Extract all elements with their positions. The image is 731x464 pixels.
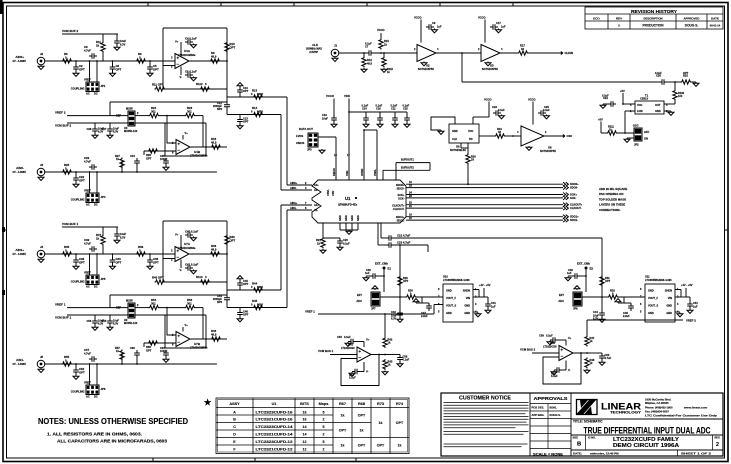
ground [320, 249, 326, 253]
svg-text:DC: DC [94, 92, 98, 96]
capacitor C57 4.7uF [89, 356, 97, 362]
svg-text:CLK: CLK [452, 137, 457, 141]
ground [668, 111, 674, 115]
capacitor C22 OPT [73, 175, 79, 183]
wire [226, 97, 228, 105]
svg-text:DOUG S.: DOUG S. [685, 24, 699, 28]
svg-text:LVDS: LVDS [296, 134, 303, 138]
svg-text:1. ALL RESISTORS ARE IN OHMS,: 1. ALL RESISTORS ARE IN OHMS, 0603. [47, 432, 142, 438]
svg-text:E2: E2 [590, 267, 594, 271]
wire [478, 290, 480, 298]
svg-text:GND: GND [655, 109, 661, 113]
capacitor C36 OPT [73, 257, 79, 265]
ground [114, 46, 120, 50]
wire AIN0+ input [45, 60, 175, 62]
svg-text:16: 16 [303, 418, 307, 422]
wire +5V [622, 93, 624, 104]
wire [385, 354, 400, 356]
svg-text:R13: R13 [252, 89, 258, 93]
svg-text:R73: R73 [377, 402, 384, 406]
U1 top pin VDDLBYP [376, 162, 378, 180]
svg-text:0.1uF: 0.1uF [551, 374, 558, 378]
svg-text:CB3LV: CB3LV [640, 97, 648, 101]
wire [580, 275, 586, 277]
svg-text:0.1uF: 0.1uF [365, 42, 372, 46]
wire box right [205, 123, 207, 156]
svg-text:TECHNOLOGY: TECHNOLOGY [610, 411, 642, 415]
svg-text:+5V: +5V [620, 89, 625, 93]
resistor R12 49.9 [362, 57, 366, 68]
capacitor C45 OPT [237, 280, 243, 288]
wire [667, 81, 681, 83]
svg-text:COUPLING: COUPLING [71, 87, 85, 91]
wire U4A output [189, 60, 227, 62]
svg-text:OPT: OPT [358, 443, 366, 447]
svg-text:PRODUCTION: PRODUCTION [643, 24, 665, 28]
wire [363, 53, 365, 57]
op-amp U12 LT1819 [357, 347, 371, 362]
wire to ADC - [227, 307, 287, 309]
wire SDO0+ line [406, 183, 563, 185]
svg-text:2: 2 [323, 433, 325, 437]
pin 3 AIN0- [281, 189, 312, 191]
jumper U3 reference select [128, 111, 135, 126]
svg-text:SDO1+: SDO1+ [396, 215, 405, 219]
svg-text:2.2uF: 2.2uF [623, 314, 630, 318]
svg-text:GND: GND [446, 311, 452, 315]
svg-text:V+: V+ [175, 233, 179, 237]
resistor R35 0 [62, 252, 73, 256]
capacitor C44 10uF [599, 310, 605, 318]
wire [624, 111, 626, 133]
wire mux to amp [135, 314, 165, 316]
svg-text:1uF: 1uF [437, 25, 442, 29]
wire [96, 254, 98, 275]
svg-text:V+: V+ [175, 40, 179, 44]
svg-text:LTC6655BHMS8-4.096: LTC6655BHMS8-4.096 [443, 278, 470, 282]
svg-text:SDO0+: SDO0+ [570, 182, 579, 186]
wire [380, 296, 400, 298]
svg-text:5: 5 [323, 425, 325, 429]
svg-text:301: 301 [151, 110, 156, 114]
ground [438, 130, 444, 134]
svg-text:AIN0-: AIN0- [290, 186, 297, 190]
terminal CS0 [560, 135, 565, 138]
svg-text:JP2: JP2 [634, 143, 639, 147]
terminal CLKOUT+ [563, 203, 568, 207]
svg-text:SHDN: SHDN [463, 289, 470, 293]
svg-text:1k: 1k [341, 413, 345, 417]
terminal SDO0- [563, 186, 568, 190]
wire [135, 307, 149, 309]
jumper JP4 coupling [86, 193, 99, 203]
svg-text:SCK-: SCK- [398, 197, 404, 201]
resistor R21 1k [321, 238, 325, 249]
svg-text:CLKOUT+: CLKOUT+ [392, 204, 405, 208]
svg-text:OPT: OPT [396, 421, 404, 425]
svg-text:Msps: Msps [319, 402, 329, 406]
svg-text:OPT: OPT [116, 68, 122, 72]
svg-text:R21: R21 [316, 238, 321, 242]
wire to CNV [467, 164, 469, 185]
ground [565, 277, 571, 281]
ground [432, 29, 438, 33]
svg-text:JP6: JP6 [101, 387, 106, 391]
jumper JP3 LVDS/CMOS select [308, 133, 318, 147]
svg-text:GND: GND [648, 289, 654, 293]
svg-text:AC: AC [86, 203, 90, 207]
svg-text:C51: C51 [693, 301, 698, 305]
resistor R40 OPT [155, 280, 166, 284]
svg-text:VREF 1: VREF 1 [55, 303, 66, 307]
svg-text:49.9: 49.9 [211, 333, 217, 337]
svg-text:R40 OPT: R40 OPT [152, 276, 164, 280]
wire [239, 308, 241, 311]
ground [404, 123, 410, 127]
svg-text:1uF: 1uF [501, 25, 506, 29]
wire SHDN [473, 289, 479, 291]
op-amp U7B LT1819 [176, 332, 190, 347]
capacitor C42 10uF [397, 310, 403, 318]
ground [191, 44, 197, 48]
svg-text:0.1uF: 0.1uF [546, 334, 553, 338]
svg-text:DOUG S.: DOUG S. [550, 413, 562, 417]
resistor R16 49.9 [211, 145, 222, 149]
U1 top pin OVDD [363, 158, 365, 180]
svg-text:LTC2323CUFD-12: LTC2323CUFD-12 [256, 440, 293, 444]
wire AIN0- input [45, 171, 217, 173]
svg-text:ASSY: ASSY [229, 402, 240, 406]
svg-text:J5: J5 [40, 355, 44, 359]
ADC U1 LTC2323CUFD body [312, 180, 406, 223]
svg-text:1uF: 1uF [365, 271, 370, 275]
svg-text:OFF: OFF [644, 130, 650, 134]
svg-text:VCM BUF 1: VCM BUF 1 [62, 222, 78, 226]
svg-text:DATA OUT: DATA OUT [299, 127, 313, 131]
svg-text:E1: E1 [388, 267, 392, 271]
capacitor C8 OPT [110, 64, 116, 72]
svg-text:C55: C55 [102, 319, 107, 323]
svg-text:VOUT_F: VOUT_F [446, 296, 456, 300]
capacitor C48 2.2uF [628, 303, 634, 311]
ground [73, 72, 79, 76]
svg-text:+5V: +5V [598, 118, 603, 122]
U1 top pin VDD [348, 130, 350, 180]
wire [618, 132, 635, 134]
wire channel1 lower feedback [110, 101, 227, 103]
svg-text:OPT: OPT [79, 68, 85, 72]
capacitor C8 4.7uF [89, 53, 97, 59]
wire [487, 297, 489, 301]
svg-text:4.7uF: 4.7uF [84, 49, 91, 53]
svg-text:TITLE: SCHEMATIC: TITLE: SCHEMATIC [573, 420, 603, 424]
wire [226, 107, 228, 115]
svg-text:JP3: JP3 [307, 148, 312, 152]
svg-text:1uF: 1uF [693, 305, 698, 309]
wire [506, 135, 522, 137]
wire [399, 297, 401, 312]
wire [379, 112, 381, 115]
ground [345, 342, 351, 346]
svg-text:+4V - +5V: +4V - +5V [479, 283, 491, 287]
svg-text:OPT: OPT [339, 428, 347, 432]
svg-text:C53: C53 [337, 335, 342, 339]
svg-text:Phone: (408)432-1900: Phone: (408)432-1900 [645, 405, 673, 409]
svg-text:VREF: VREF [84, 189, 91, 193]
ground [361, 68, 367, 72]
svg-text:V+: V+ [366, 338, 370, 342]
svg-text:CONNECTIONS.: CONNECTIONS. [599, 208, 621, 212]
wire [135, 115, 149, 117]
svg-text:C60: C60 [130, 346, 135, 350]
wire [136, 166, 138, 172]
wire [433, 305, 435, 315]
wire [460, 143, 462, 148]
resistor R32 0 [608, 295, 619, 299]
wire VCM BUF 2 rail [62, 33, 118, 35]
ground [147, 265, 153, 269]
wire [89, 254, 91, 275]
svg-text:OPT: OPT [243, 89, 249, 93]
svg-text:VREF 2: VREF 2 [686, 319, 696, 323]
wire to transformer [462, 81, 659, 83]
svg-text:0V - 4.096V: 0V - 4.096V [13, 59, 27, 63]
wire from U1 [380, 223, 382, 238]
wire channel3 lower feedback [110, 294, 227, 296]
jumper JP1 coupling [86, 82, 99, 92]
wire to ADC - [227, 114, 281, 116]
wire OVDD [363, 130, 365, 158]
terminal CLKOUT- [563, 206, 568, 210]
svg-text:OPT: OPT [79, 179, 85, 183]
resistor R112 0 [200, 87, 211, 91]
terminal SDO0+ [563, 182, 568, 186]
svg-text:LTC2323CUFD-14: LTC2323CUFD-14 [256, 425, 294, 429]
U1 top pin REFIO [335, 158, 337, 180]
wire [582, 296, 602, 298]
resistor R55 0 [62, 362, 73, 366]
ground [397, 318, 403, 322]
svg-text:APP ENG.: APP ENG. [532, 413, 545, 417]
svg-text:OPT: OPT [230, 239, 236, 243]
svg-text:49.9: 49.9 [211, 55, 217, 59]
resistor R57 1k [120, 350, 124, 361]
capacitor C62 0.1uF [554, 367, 562, 373]
common-mode terminal [413, 299, 419, 303]
capacitor C39 4.7uF [89, 246, 97, 252]
resistor R111 1k [607, 131, 618, 135]
svg-text:JP5: JP5 [101, 277, 106, 281]
svg-text:GND: GND [446, 289, 452, 293]
capacitor C19 10uF [331, 115, 337, 123]
svg-text:DATE:: DATE: [573, 452, 582, 456]
wire [89, 172, 91, 193]
capacitor C23 4.7uF [386, 242, 394, 248]
wire VREF 2 [587, 319, 683, 321]
svg-text:JP7: JP7 [371, 307, 376, 311]
wire [196, 115, 204, 117]
ground [397, 363, 403, 367]
svg-text:0603: 0603 [257, 285, 263, 289]
svg-text:OPT: OPT [116, 261, 122, 265]
wire inverting input [144, 150, 176, 152]
wire [226, 300, 228, 308]
wire [395, 163, 397, 180]
connector J2 AIN0+ [37, 57, 45, 65]
svg-text:R74: R74 [396, 402, 404, 406]
terminal SCK+ [563, 193, 568, 197]
svg-text:AIN1-: AIN1- [16, 358, 24, 362]
svg-text:VCC: VCC [468, 129, 474, 133]
wire [384, 331, 386, 338]
svg-text:AIN0-: AIN0- [16, 166, 24, 170]
svg-text:Fax: (408)434-0507: Fax: (408)434-0507 [645, 409, 669, 413]
resistor R15 1k [379, 39, 383, 50]
svg-text:AIN0+: AIN0+ [15, 55, 24, 59]
svg-text:6.3V: 6.3V [120, 236, 126, 240]
wire CLKOUT- line [406, 207, 563, 209]
wire [623, 103, 635, 105]
wire [399, 264, 401, 297]
ground [163, 166, 169, 170]
svg-text:C44: C44 [593, 310, 598, 314]
svg-text:QFN28UFD-4Ex: QFN28UFD-4Ex [338, 203, 358, 207]
wire [109, 102, 111, 116]
ground [381, 68, 387, 72]
capacitor C6 0.1uF [185, 72, 193, 78]
wire [160, 115, 185, 117]
wire BUFIOUT1 [396, 162, 430, 164]
svg-text:BD61.: BD61. [550, 406, 558, 410]
jumper JP5 coupling [86, 275, 99, 285]
svg-text:VREF: VREF [84, 381, 91, 385]
wire output column [226, 28, 228, 97]
svg-text:OPT: OPT [243, 120, 249, 124]
svg-text:OPT: OPT [146, 157, 152, 161]
op-amp U13 LT1819 [559, 346, 573, 361]
ground [110, 72, 116, 76]
capacitor C20 0.1uF [337, 238, 343, 246]
wire [440, 296, 443, 298]
svg-text:PCB DES.: PCB DES. [532, 406, 545, 410]
capacitor C14 0.1uF [363, 115, 369, 123]
wire VIN [473, 296, 488, 298]
svg-text:OPT: OPT [79, 371, 85, 375]
wire from U1 b [377, 223, 379, 245]
wire feedback loop [543, 353, 581, 384]
svg-text:10uF: 10uF [120, 39, 126, 43]
resistor R58 OPT [148, 341, 159, 345]
svg-text:0.1uF: 0.1uF [498, 108, 505, 112]
svg-text:LTC2323CUFD-16: LTC2323CUFD-16 [256, 410, 293, 414]
wire [365, 112, 367, 115]
svg-text:NC7SZ04P5X: NC7SZ04P5X [482, 67, 498, 71]
svg-text:1630 McCarthy Blvd.: 1630 McCarthy Blvd. [645, 397, 672, 401]
wire [473, 116, 489, 118]
jumper U9 reference select [128, 303, 135, 318]
svg-text:2.5VPP: 2.5VPP [309, 50, 318, 54]
svg-text:U1: U1 [272, 402, 277, 406]
ground [547, 341, 553, 345]
svg-text:0V - 4.096V: 0V - 4.096V [13, 362, 27, 366]
svg-text:VCM BUF 2: VCM BUF 2 [62, 29, 78, 33]
capacitor C56 10uF [92, 318, 98, 326]
svg-text:VREF: VREF [84, 271, 91, 275]
svg-text:0.1uF: 0.1uF [655, 71, 662, 75]
wire [356, 341, 364, 343]
wire [587, 352, 602, 354]
connector J1 CLK [331, 49, 339, 57]
svg-text:C6 0.1uF: C6 0.1uF [185, 70, 197, 74]
svg-text:10uF: 10uF [322, 117, 328, 121]
wire [96, 172, 98, 193]
wire [149, 61, 151, 64]
svg-text:EXT_CMh: EXT_CMh [375, 262, 388, 266]
svg-text:R12: R12 [367, 58, 372, 62]
svg-text:EXT: EXT [357, 293, 362, 297]
wire VCM BUF 1 [67, 314, 128, 316]
svg-text:0603: 0603 [257, 110, 263, 114]
ground [624, 138, 630, 142]
wire inverting input [163, 65, 175, 67]
capacitor C60 100pF [134, 350, 140, 358]
svg-text:BUFIOUT1: BUFIOUT1 [401, 158, 414, 162]
wire U7A feedback bottom [163, 281, 227, 283]
wire [674, 101, 676, 105]
svg-text:OPT: OPT [153, 261, 159, 265]
wire [601, 238, 603, 297]
svg-text:LTC2321CUFD-14: LTC2321CUFD-14 [256, 433, 294, 437]
svg-text:B: B [577, 442, 581, 448]
capacitor C18 0.1uF [493, 110, 501, 116]
wire [586, 329, 588, 336]
wire [378, 244, 386, 246]
wire [483, 288, 485, 297]
resistor R30 0 [406, 295, 417, 299]
resistor R13 0 [253, 95, 264, 99]
resistor R23 301 [185, 113, 196, 117]
ground [107, 326, 113, 330]
wire [109, 295, 111, 308]
svg-text:COUPLING: COUPLING [71, 390, 85, 394]
wire U4A feedback top [163, 27, 227, 29]
svg-text:J3: J3 [40, 163, 44, 167]
svg-text:U4A: U4A [184, 49, 191, 53]
svg-text:301: 301 [187, 302, 192, 306]
gate U6 NC7SZ32 box [449, 124, 479, 143]
ground [485, 62, 491, 66]
svg-text:0.1uF: 0.1uF [391, 104, 398, 108]
svg-text:12: 12 [303, 448, 307, 452]
wire VDD stub [348, 99, 350, 131]
wire to noninverting input [167, 308, 176, 335]
wire feedback loop [341, 355, 379, 386]
wire [112, 61, 114, 64]
svg-text:C41 0.1uF: C41 0.1uF [185, 263, 199, 267]
resistor R109 100 [673, 90, 677, 101]
resistor R28 OPT [148, 149, 159, 153]
svg-text:OPT: OPT [377, 443, 385, 447]
capacitor C7 0.1uF [366, 50, 374, 56]
capacitor C40 0.1uF [185, 232, 193, 238]
capacitor C35 100pF [163, 158, 169, 166]
svg-text:R113: R113 [196, 275, 203, 279]
common-mode terminal [615, 299, 621, 303]
wire to noninverting input [167, 116, 176, 143]
capacitor C53 0.1uF [348, 339, 356, 345]
svg-text:VCM BUF 1: VCM BUF 1 [55, 316, 71, 320]
wire to VREF 2 [586, 320, 588, 329]
